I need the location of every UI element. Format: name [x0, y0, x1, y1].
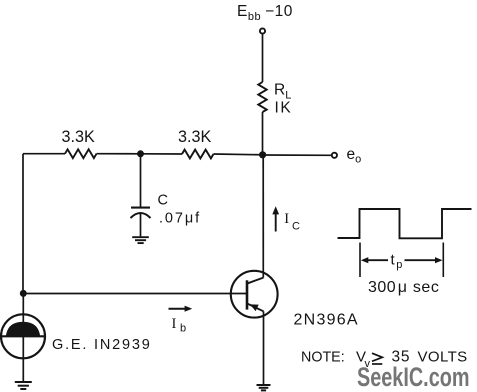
wire Ebb terminal to RL — [262, 34, 264, 82]
terminal Ebb — [260, 28, 265, 33]
node cap junction — [137, 150, 144, 157]
svg-text:C: C — [158, 193, 168, 209]
label C — [158, 193, 168, 209]
watermark SeekIC.com — [357, 362, 470, 392]
svg-text:SeekIC.com: SeekIC.com — [357, 362, 470, 392]
label eo — [347, 146, 362, 166]
label .07uf — [159, 210, 201, 226]
capacitor C top plate — [131, 207, 150, 209]
capacitor C curved plate — [131, 213, 151, 218]
node base junction — [20, 290, 27, 297]
ground diode — [15, 382, 32, 389]
dimension line right — [442, 243, 444, 278]
svg-text:3.3K: 3.3K — [62, 128, 96, 146]
label IC — [284, 211, 300, 232]
label Ebb -10 — [237, 3, 293, 23]
label Ib — [172, 316, 187, 335]
wire R1 to cap node — [97, 153, 141, 155]
waveform pulse train — [338, 209, 472, 238]
label tp — [391, 251, 403, 271]
svg-text:p: p — [396, 259, 402, 271]
label 300 usec — [368, 279, 439, 296]
label R2 3.3K — [178, 128, 212, 146]
svg-text:b: b — [180, 323, 186, 335]
transistor Q1 2N396A — [231, 271, 278, 318]
wire emitter down — [263, 311, 265, 385]
resistor R2 3.3K — [182, 150, 213, 159]
wire cap to ground — [140, 213, 142, 236]
tunnel diode D1 — [1, 314, 45, 358]
current arrow IC — [275, 213, 277, 232]
svg-text:Ebb−10: Ebb−10 — [237, 3, 293, 23]
current arrow Ib — [169, 308, 186, 310]
resistor RL — [258, 82, 266, 112]
dimension arrow right — [405, 259, 437, 261]
wire R2 to output node — [214, 153, 263, 156]
svg-text:G.E. IN2939: G.E. IN2939 — [52, 337, 152, 353]
svg-text:2N396A: 2N396A — [294, 311, 359, 328]
dimension line left — [359, 243, 361, 278]
label 2N396A — [294, 311, 359, 328]
note text — [301, 349, 468, 371]
ground emitter — [257, 385, 271, 390]
svg-text:NOTE:: NOTE: — [301, 350, 345, 366]
wire node to collector — [262, 155, 264, 278]
label RL 1K — [274, 82, 292, 117]
svg-text:IK: IK — [275, 99, 293, 116]
wire left vertical — [22, 154, 24, 294]
label R1 3.3K — [62, 128, 96, 146]
wire cap branch — [140, 154, 142, 207]
resistor R1 3.3K — [65, 149, 97, 158]
ground capacitor — [132, 237, 149, 243]
wire base node through tunnel diode to ground — [22, 294, 24, 382]
wire node to eo terminal — [263, 154, 332, 156]
dimension arrow left — [366, 259, 388, 261]
svg-text:C: C — [292, 221, 300, 233]
svg-text:3.3K: 3.3K — [178, 128, 212, 146]
label G.E. IN2939 — [52, 337, 152, 353]
wire left rail start — [23, 153, 65, 155]
wire cap node to R2 — [141, 153, 183, 155]
svg-text:300μsec: 300μsec — [368, 279, 439, 296]
wire base rail — [23, 293, 246, 295]
terminal eo — [332, 153, 337, 158]
svg-text:.07μf: .07μf — [159, 210, 201, 226]
wire RL to output node — [262, 112, 264, 155]
svg-text:I: I — [284, 211, 289, 227]
node output junction — [259, 151, 266, 158]
svg-text:I: I — [172, 316, 177, 332]
